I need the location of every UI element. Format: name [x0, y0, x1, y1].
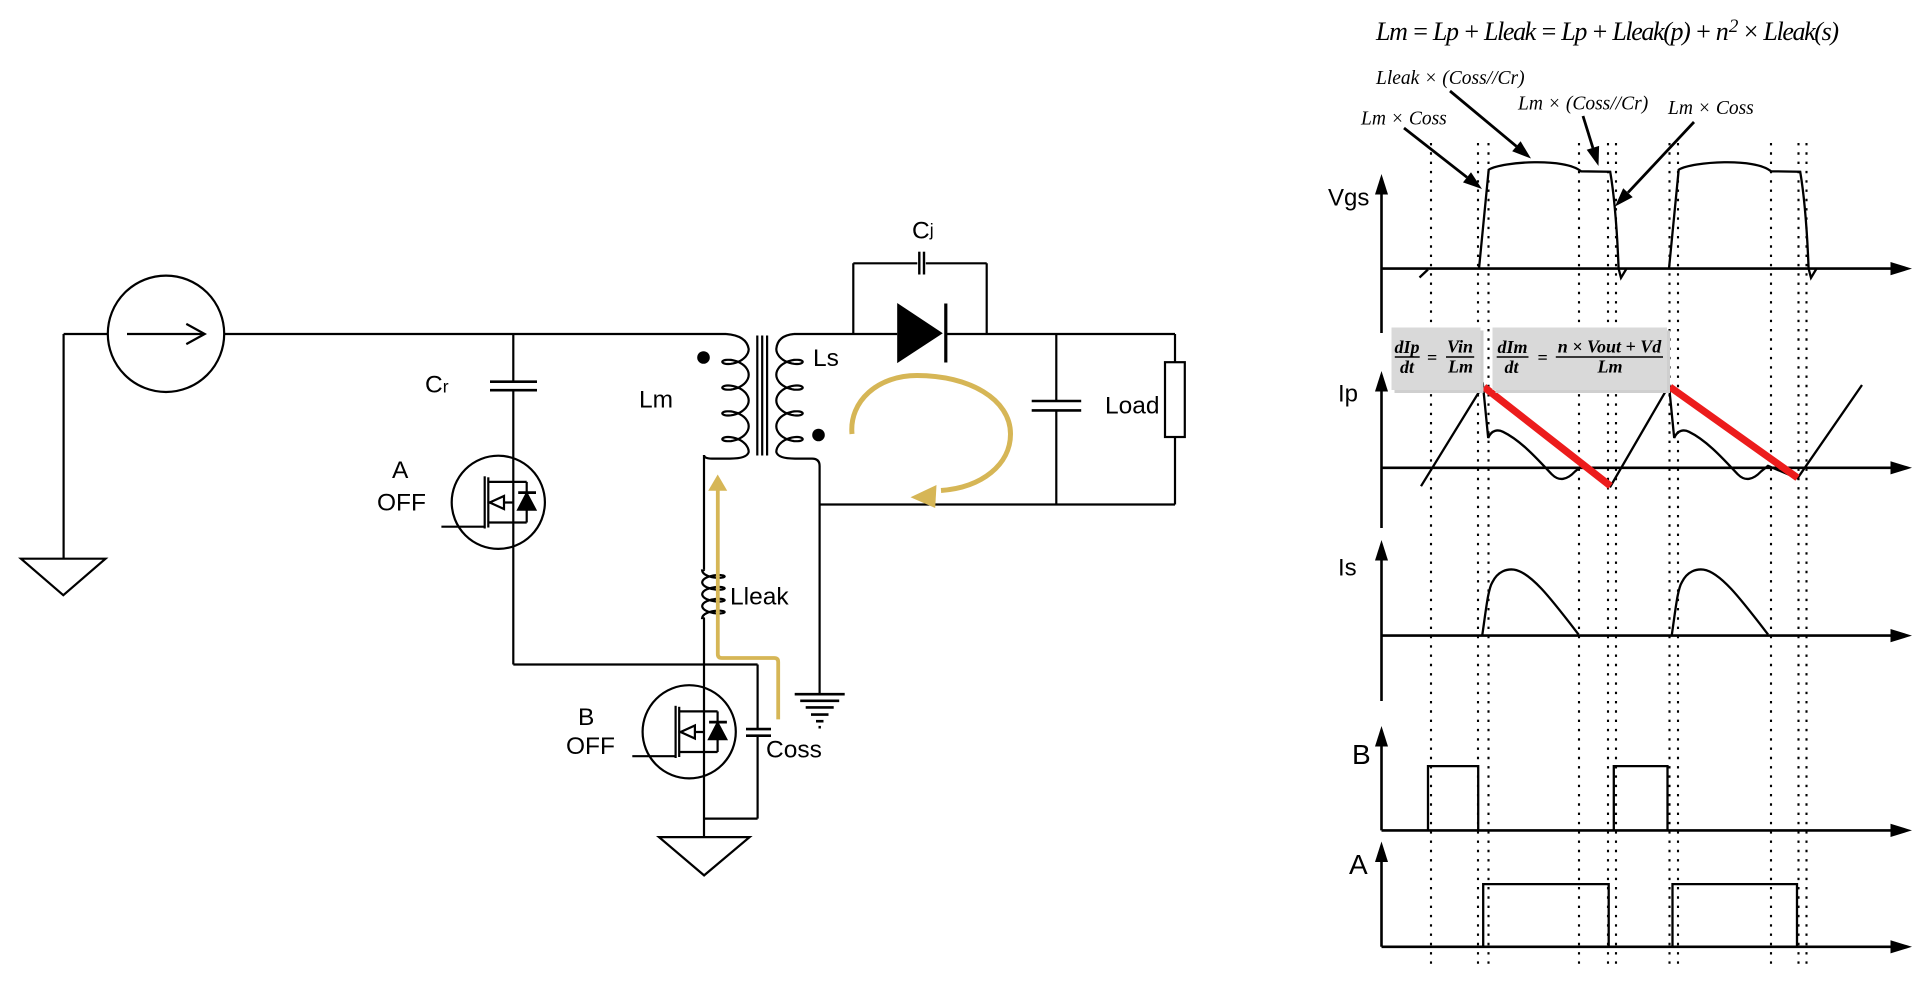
svg-text:Cr: Cr	[425, 372, 449, 399]
svg-text:n × Vout + Vd: n × Vout + Vd	[1558, 337, 1663, 357]
svg-text:dIp: dIp	[1394, 337, 1419, 357]
svg-text:Is: Is	[1338, 555, 1357, 582]
svg-text:=: =	[1537, 348, 1547, 368]
svg-text:B: B	[578, 704, 594, 731]
svg-text:OFF: OFF	[566, 733, 615, 760]
svg-text:dIm: dIm	[1497, 337, 1527, 357]
svg-text:Vin: Vin	[1447, 337, 1473, 357]
svg-text:A: A	[392, 457, 409, 484]
svg-text:Lleak × (Coss//Cr): Lleak × (Coss//Cr)	[1375, 68, 1525, 89]
svg-text:Vgs: Vgs	[1328, 185, 1369, 212]
svg-text:=: =	[1427, 348, 1437, 368]
svg-text:OFF: OFF	[377, 490, 426, 517]
svg-text:Lm: Lm	[1597, 357, 1623, 377]
svg-text:Load: Load	[1105, 393, 1160, 420]
svg-text:Coss: Coss	[766, 737, 822, 764]
svg-text:Ip: Ip	[1338, 381, 1358, 408]
svg-text:Lm: Lm	[1447, 357, 1473, 377]
svg-text:Lm × Coss: Lm × Coss	[1667, 98, 1754, 119]
svg-text:Cj: Cj	[912, 218, 934, 245]
svg-text:Ls: Ls	[813, 345, 839, 372]
svg-text:A: A	[1349, 849, 1368, 880]
svg-text:Lm × (Coss//Cr): Lm × (Coss//Cr)	[1517, 94, 1648, 115]
svg-text:dt: dt	[1504, 357, 1519, 377]
svg-text:Lm × Coss: Lm × Coss	[1360, 109, 1447, 130]
svg-text:Lm: Lm	[639, 387, 673, 414]
svg-text:Lleak: Lleak	[730, 584, 789, 611]
svg-text:Lm = Lp + Lleak = Lp + Lleak(p: Lm = Lp + Lleak = Lp + Lleak(p) + n2 × L…	[1375, 16, 1839, 46]
svg-text:dt: dt	[1400, 357, 1415, 377]
svg-text:B: B	[1352, 739, 1371, 770]
